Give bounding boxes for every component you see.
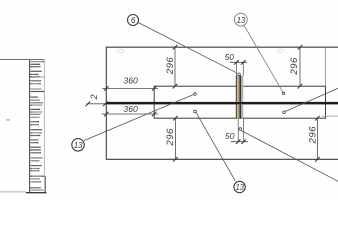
dim 50 top: line [230, 61, 247, 63]
stray mark left margin [7, 119, 10, 120]
balloon 13 bottom [234, 181, 245, 192]
node circle right lower [283, 111, 286, 114]
dim 296 top-right: tick bottom [298, 84, 303, 89]
dim 50 bottom: line [231, 141, 248, 143]
dim 2 left: line [87, 103, 107, 105]
sheet bottom edge gray line [0, 191, 26, 193]
dim 296 bottom-left: line [174, 118, 176, 159]
dim 360 bottom: tick right [152, 112, 157, 117]
thick splice joint centerline [106, 102, 338, 105]
dim 360 top: tick right [152, 86, 157, 91]
dim 360 top: tick left [104, 86, 109, 91]
leader from balloon 6 to splice top [138, 22, 237, 72]
svg-text:296: 296 [308, 126, 319, 145]
leader from splice bottom node to off-screen right [241, 131, 338, 182]
node circle left lower [194, 110, 197, 113]
dim 2 left: tick right [103, 102, 108, 107]
left table bottom box right edge [45, 176, 47, 193]
dim 296 top-right: tick top [298, 45, 303, 50]
dim 360 bottom: line [102, 113, 159, 115]
svg-text:296: 296 [165, 128, 176, 147]
outer plate rectangle [106, 47, 338, 159]
node circle right upper [282, 92, 285, 95]
svg-text:50: 50 [225, 52, 235, 62]
faint ghost mark right on top edge [278, 49, 284, 52]
dim 296 top-left: line [174, 47, 176, 86]
dim 50 top: extension left [236, 62, 238, 75]
left table header box divider [30, 76, 45, 78]
svg-text:296: 296 [165, 57, 176, 76]
balloon 13 top-right [234, 13, 247, 26]
dim 296 bottom-left: tick top [173, 116, 178, 121]
left table right border [43, 60, 45, 193]
balloon 6 [128, 15, 139, 26]
balloon 13 left [72, 139, 84, 151]
svg-text:296: 296 [289, 57, 300, 76]
dim 296 bottom-left: tick bottom [173, 157, 178, 162]
dim 296 top-right: line [299, 47, 301, 86]
faint ghost mark left on top edge [117, 49, 124, 53]
svg-text:360: 360 [123, 76, 138, 86]
left table tiny text rows [30, 61, 44, 191]
svg-text:50: 50 [225, 131, 235, 141]
left table bottom box divider [30, 175, 46, 177]
svg-text:360: 360 [123, 104, 138, 114]
dim 360 top: line [102, 87, 158, 89]
node circle splice bottom [239, 128, 242, 131]
left table top border [0, 59, 45, 61]
node circle left upper [194, 93, 197, 96]
dim 50 top: extension right [242, 62, 244, 75]
splice plate lower section (filled) [236, 104, 244, 118]
dim 50 bottom: tick right [241, 139, 246, 144]
svg-text:6: 6 [131, 16, 136, 25]
dim 50 top: tick right [241, 60, 246, 65]
dim 296 top-left: tick bottom [173, 84, 178, 89]
svg-text:13: 13 [237, 16, 246, 25]
beam flange band rectangle [154, 86, 325, 118]
dim 2 left: tick left [86, 102, 91, 107]
gray stub line right of band bottom [322, 115, 338, 117]
dim 296 bottom-right: tick top [315, 116, 320, 121]
leader from right lower node to off-screen top right [285, 88, 338, 111]
band right edge extension line up [325, 47, 327, 86]
left table left frame line [29, 60, 31, 193]
left table bottom border dark [26, 192, 47, 194]
dim 296 bottom-right: line [316, 118, 318, 159]
svg-text:2: 2 [89, 94, 99, 100]
svg-text:13: 13 [74, 141, 83, 150]
node circle splice top [238, 73, 241, 76]
dim 360 bottom: tick left [104, 112, 109, 117]
leader from left lower node to balloon 13 bottom [196, 113, 235, 181]
splice plate upper section (filled) [236, 76, 244, 102]
dim 296 top-left: tick top [173, 45, 178, 50]
dim 50 bottom: extension left [237, 118, 239, 141]
leader from balloon 13 left [84, 95, 194, 141]
dim 50 bottom: tick left [236, 139, 241, 144]
leader from balloon 13 top-right [244, 25, 284, 93]
dim 50 top: tick left [234, 60, 239, 65]
dim 50 bottom: extension right [243, 118, 245, 141]
dim 296 bottom-right: tick bottom [315, 157, 320, 162]
svg-text:13: 13 [236, 183, 245, 192]
